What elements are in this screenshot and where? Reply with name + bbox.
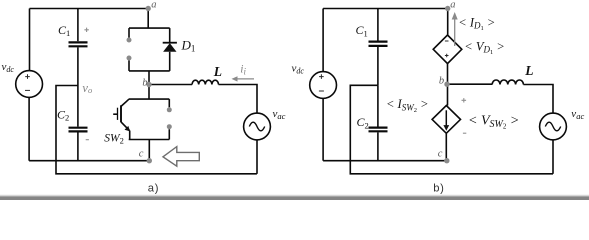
svg-text:vac: vac bbox=[273, 108, 286, 121]
svg-text:C1: C1 bbox=[356, 23, 368, 38]
svg-text:vac: vac bbox=[571, 108, 584, 121]
svg-text:a): a) bbox=[148, 183, 159, 195]
svg-text:c: c bbox=[438, 148, 443, 159]
svg-text:L: L bbox=[524, 63, 533, 78]
svg-text:< VSW2 >: < VSW2 > bbox=[468, 114, 519, 131]
svg-text:< VD1 >: < VD1 > bbox=[464, 39, 505, 56]
svg-text:D1: D1 bbox=[181, 37, 196, 53]
svg-text:C2: C2 bbox=[57, 107, 69, 122]
svg-text:a: a bbox=[151, 0, 156, 10]
svg-text:a: a bbox=[450, 0, 455, 11]
svg-text:ii: ii bbox=[240, 63, 246, 76]
svg-text:vo: vo bbox=[82, 81, 92, 95]
svg-text:L: L bbox=[213, 64, 222, 79]
svg-text:b: b bbox=[439, 76, 444, 87]
svg-text:b: b bbox=[142, 77, 147, 88]
svg-text:C1: C1 bbox=[58, 23, 70, 38]
svg-text:< ISW2 >: < ISW2 > bbox=[386, 97, 429, 114]
svg-text:C2: C2 bbox=[357, 115, 369, 130]
svg-text:vdc: vdc bbox=[2, 61, 15, 74]
svg-text:c: c bbox=[139, 148, 144, 159]
svg-text:< ID1 >: < ID1 > bbox=[458, 15, 495, 32]
svg-text:SW2: SW2 bbox=[104, 133, 124, 146]
svg-text:b): b) bbox=[433, 183, 444, 195]
svg-text:vdc: vdc bbox=[292, 62, 305, 75]
